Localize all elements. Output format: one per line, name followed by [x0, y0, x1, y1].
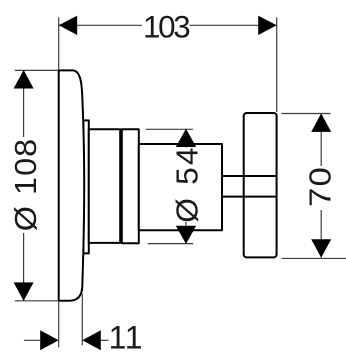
Ø108 ext top: [15, 69, 58, 71]
70 up arrow: [311, 113, 331, 131]
103 right arrow: [258, 16, 277, 35]
Ø54 ext bottom: [148, 243, 194, 245]
cylinder A (Ø54): [89, 129, 120, 243]
70 down arrow: [311, 239, 331, 258]
103 dimension line: [59, 24, 277, 26]
70 ext top: [282, 113, 331, 115]
sleeve C: [139, 144, 222, 230]
103 left arrow: [59, 16, 77, 35]
Ø54 ext top: [146, 128, 193, 130]
svg-text:Ø 54: Ø 54: [170, 145, 205, 223]
ext line left of 103 / top of dome face: [58, 17, 60, 70]
Ø54 down arrow: [176, 226, 196, 244]
70 white underlay: [308, 166, 334, 210]
svg-text:103: 103: [143, 10, 190, 45]
svg-text:70: 70: [302, 166, 337, 207]
ring A' (thin ring behind dome): [83, 120, 89, 253]
70 ext bottom: [282, 257, 346, 259]
stem lines: [222, 175, 277, 177]
ring B: [122, 129, 139, 243]
70 dimension line: [320, 113, 322, 257]
svg-text:11: 11: [109, 320, 144, 356]
Ø108 ext bottom: [15, 300, 58, 302]
11 right arrow (points left): [82, 330, 101, 350]
handle: [244, 113, 277, 257]
11 ext right: [81, 294, 83, 345]
103 white underlay: [142, 14, 190, 38]
Ø108 up arrow: [14, 70, 34, 89]
O108 white underlay: [11, 137, 37, 233]
Ø54 up arrow: [176, 129, 196, 147]
ext line right of 103 (to handle top): [276, 17, 278, 112]
11 right tail: [101, 339, 109, 341]
11 left arrow (points right): [40, 330, 59, 350]
dome / escutcheon: [59, 70, 84, 300]
11 left tail: [24, 339, 40, 341]
svg-text:Ø 108: Ø 108: [8, 138, 43, 231]
O54 white underlay: [172, 148, 199, 223]
ext line below dome (11 dim, left): [58, 301, 60, 347]
Ø108 down arrow: [14, 282, 34, 301]
Ø108 dimension line: [23, 70, 25, 301]
Ø54 dimension line: [185, 129, 187, 244]
object outline: [59, 70, 277, 300]
